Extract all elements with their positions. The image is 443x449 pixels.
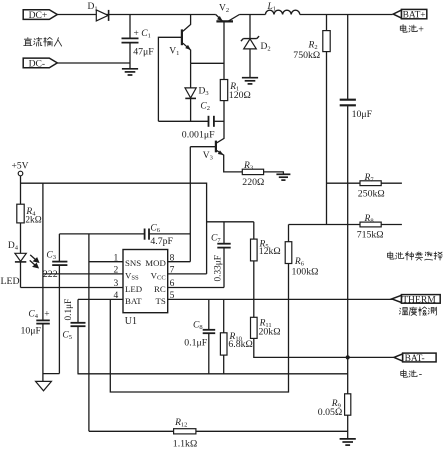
svg-text:250kΩ: 250kΩ — [358, 189, 385, 200]
svg-text:10μF: 10μF — [352, 109, 373, 120]
svg-text:0.05Ω: 0.05Ω — [318, 407, 342, 418]
svg-text:715kΩ: 715kΩ — [357, 230, 384, 241]
svg-text:220Ω: 220Ω — [242, 177, 264, 188]
svg-text:BAT: BAT — [125, 296, 142, 306]
svg-text:6.8kΩ: 6.8kΩ — [228, 339, 252, 350]
svg-text:MOD: MOD — [145, 258, 166, 268]
svg-text:750kΩ: 750kΩ — [293, 50, 320, 61]
svg-text:222: 222 — [43, 269, 58, 280]
svg-text:LED: LED — [125, 284, 142, 294]
svg-text:4: 4 — [114, 291, 119, 301]
svg-text:120Ω: 120Ω — [229, 90, 251, 101]
svg-text:8: 8 — [170, 253, 175, 263]
svg-text:U1: U1 — [125, 316, 137, 327]
svg-text:DC-: DC- — [29, 58, 46, 69]
svg-text:6: 6 — [170, 279, 175, 289]
svg-text:12kΩ: 12kΩ — [259, 246, 281, 257]
svg-text:TS: TS — [156, 296, 166, 306]
svg-text:BAT+: BAT+ — [403, 10, 426, 20]
svg-text:SNS: SNS — [125, 258, 141, 268]
svg-text:1.1kΩ: 1.1kΩ — [173, 438, 197, 449]
svg-text:+: + — [418, 24, 424, 35]
svg-text:THERM: THERM — [402, 294, 436, 305]
svg-text:100kΩ: 100kΩ — [292, 267, 319, 278]
svg-text:3: 3 — [114, 279, 119, 289]
svg-text:0.1μF: 0.1μF — [64, 299, 74, 321]
svg-text:+: + — [44, 310, 49, 320]
svg-text:20kΩ: 20kΩ — [259, 327, 281, 338]
svg-text:1: 1 — [114, 253, 119, 263]
svg-text:0.001μF: 0.001μF — [182, 130, 215, 141]
svg-text:LED: LED — [1, 276, 20, 287]
svg-text:2: 2 — [114, 266, 119, 276]
svg-text:RC: RC — [154, 284, 166, 294]
svg-text:BAT-: BAT- — [405, 354, 425, 364]
svg-text:+5V: +5V — [12, 162, 29, 172]
svg-text:5: 5 — [170, 291, 175, 301]
svg-text:0.33μF: 0.33μF — [214, 255, 224, 281]
svg-text:0.1μF: 0.1μF — [184, 338, 207, 349]
svg-text:4.7pF: 4.7pF — [150, 236, 173, 247]
svg-text:10μF: 10μF — [21, 326, 42, 337]
svg-text:7: 7 — [170, 266, 175, 276]
svg-text:47μF: 47μF — [133, 47, 154, 58]
svg-text:DC+: DC+ — [29, 10, 48, 21]
svg-text:2kΩ: 2kΩ — [25, 216, 41, 226]
svg-text:-: - — [419, 369, 422, 380]
